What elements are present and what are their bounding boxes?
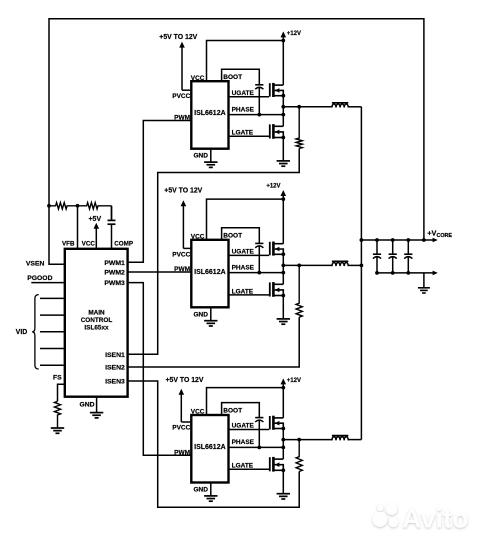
svg-text:UGATE: UGATE [232, 423, 255, 430]
resistor R_ISEN3 current sense [296, 440, 302, 472]
node boot cap to PHASE driver 1 [257, 113, 261, 117]
wire phase to inductor driver 3 [283, 439, 332, 441]
driver U2 ISL6612A box [191, 81, 228, 149]
wire LGATE driver 2 [229, 294, 270, 296]
svg-text:PWM2: PWM2 [104, 270, 125, 277]
wire PVCC driver 2 [183, 247, 191, 249]
node return cap 1 [375, 271, 379, 275]
ground output return [418, 287, 430, 289]
resistor R3 (FS) [54, 401, 60, 428]
svg-text:+5V TO 12V: +5V TO 12V [166, 377, 204, 384]
wire VSEN feedback rail from +VCORE (top rail) [49, 19, 424, 265]
svg-text:VCC: VCC [82, 240, 96, 247]
node high-side source driver 3 [281, 427, 285, 431]
svg-text:ISEN2: ISEN2 [105, 365, 125, 372]
wire low-side source to ground driver 2 [282, 296, 284, 319]
wire LGATE driver 3 [229, 468, 270, 470]
svg-text:VCC: VCC [191, 234, 205, 241]
svg-text:ISL6612A: ISL6612A [194, 444, 226, 451]
wire VCC driver 3 to +12V [207, 388, 284, 415]
svg-text:GND: GND [193, 487, 208, 494]
svg-text:PWM: PWM [174, 115, 190, 122]
wire inductor to bus driver 1 [348, 106, 362, 108]
svg-text:FS: FS [53, 375, 62, 382]
ground driver 1 [204, 161, 217, 163]
supply +5V arrow to VCC [94, 223, 100, 229]
svg-text:VCC: VCC [191, 409, 205, 416]
node low-side source driver 3 [281, 468, 285, 472]
svg-text:GND: GND [193, 311, 208, 318]
wire GND pin driver 3 [210, 483, 212, 496]
transistor Q4 low-side [269, 282, 271, 296]
svg-text:UGATE: UGATE [232, 248, 255, 255]
node PHASE pin junction driver 1 [281, 113, 285, 117]
wire output return rail with arrow [433, 271, 438, 276]
node VCORE feedback tap [422, 238, 426, 242]
wire phase vertical driver 2 [282, 254, 284, 284]
inductor L1 [332, 102, 348, 104]
wire GND pin driver 1 [210, 149, 212, 162]
svg-text:+12V: +12V [287, 378, 301, 384]
wire PVCC driver 3 [181, 421, 191, 423]
supply +12V driver 3 [281, 378, 287, 384]
svg-text:PVCC: PVCC [172, 93, 190, 100]
wire ISEN3 net [128, 381, 300, 507]
wire BOOT driver 1 [222, 69, 260, 85]
svg-text:VID: VID [16, 329, 28, 336]
wire PHASE pin driver 1 [229, 114, 284, 116]
wire +12V to high-side drain driver 2 [282, 199, 284, 244]
wire VFB to main control [77, 206, 79, 249]
wire VID bit 0 [40, 297, 65, 299]
svg-text:VFB: VFB [62, 240, 75, 247]
supply +5V TO 12V arrow (PVCC) driver 3 [179, 389, 185, 395]
svg-text:ISEN3: ISEN3 [105, 379, 125, 386]
brace VID bus [32, 295, 39, 369]
wire VID bit 3 [40, 348, 65, 350]
wire PGOOD [31, 282, 65, 284]
transistor Q6 low-side [269, 457, 271, 471]
svg-text:PHASE: PHASE [232, 106, 255, 113]
svg-text:BOOT: BOOT [223, 408, 242, 415]
ground FS resistor [51, 427, 64, 429]
node PHASE pin junction driver 3 [281, 446, 285, 450]
wire PWM3 net [128, 283, 192, 456]
resistor R_ISEN2 current sense [296, 265, 302, 317]
wire UGATE driver 3 [229, 429, 270, 431]
wire PVCC driver 1 [182, 89, 191, 91]
capacitor C2 output [376, 240, 378, 254]
wire BOOT driver 3 [222, 403, 260, 418]
capacitor C4 output [407, 240, 409, 254]
transistor Q3 high-side [269, 242, 271, 256]
watermark Avito logo [365, 496, 475, 538]
capacitor C3 output [392, 240, 394, 254]
node phase junction driver 1 [281, 105, 285, 109]
svg-text:VSEN: VSEN [26, 260, 45, 267]
svg-text:GND: GND [79, 402, 94, 409]
wire PWM2 net [128, 271, 192, 273]
wire R2 to COMP cap [111, 206, 113, 221]
node phase junction driver 3 [281, 438, 285, 442]
wire phase summing bus [360, 107, 362, 440]
svg-text:ISL6612A: ISL6612A [194, 110, 226, 117]
wire phase to inductor driver 2 [283, 264, 332, 266]
node VSEN/R1 junction [47, 204, 51, 208]
svg-text:+12V: +12V [287, 31, 301, 37]
capacitor C1 (COMP) [111, 206, 113, 221]
svg-text:BOOT: BOOT [223, 74, 242, 81]
wire GND pin driver 2 [210, 307, 212, 320]
driver U3 ISL6612A box [191, 240, 228, 307]
ground driver 2 [204, 320, 217, 322]
wire inductor to bus driver 2 [348, 264, 362, 266]
svg-text:PHASE: PHASE [232, 439, 255, 446]
wire phase vertical driver 1 [282, 96, 284, 127]
svg-text:PWM1: PWM1 [104, 260, 125, 267]
resistor R1 (VFB divider) [49, 203, 78, 209]
supply +12V driver 1 [281, 31, 287, 37]
wire low-side source to ground driver 3 [282, 470, 284, 493]
ground driver 3 [204, 495, 217, 497]
node bus/VCORE tap [360, 238, 364, 242]
wire phase to inductor driver 1 [283, 106, 332, 108]
svg-text:PWM3: PWM3 [104, 280, 125, 287]
node VCC/+12V junction driver 1 [281, 39, 285, 43]
wire return to ground [423, 273, 425, 288]
node VCC/+12V junction driver 3 [281, 386, 285, 390]
node return cap 2 [391, 271, 395, 275]
svg-text:PGOOD: PGOOD [27, 275, 52, 282]
inductor L2 [332, 260, 348, 262]
node boot cap to PHASE driver 3 [257, 446, 261, 450]
wire LGATE driver 1 [229, 135, 270, 137]
wire ISEN2 net [128, 317, 300, 367]
node return cap 3 [406, 271, 410, 275]
ground main control [90, 412, 103, 414]
node VCORE cap tap 2 [391, 238, 395, 242]
svg-text:VCC: VCC [191, 75, 205, 82]
wire BOOT driver 2 [222, 228, 260, 244]
resistor R_ISEN1 current sense [296, 107, 302, 149]
transistor Q5 high-side [269, 416, 271, 430]
wire VCC driver 1 to +12V [207, 41, 284, 82]
node sense tap driver 1 [297, 105, 301, 109]
svg-text:+12V: +12V [266, 184, 280, 190]
capacitor C_B2 bootstrap [258, 242, 260, 244]
wire UGATE driver 1 [229, 96, 270, 98]
wire +12V to high-side drain driver 3 [282, 388, 284, 418]
driver U4 ISL6612A box [191, 415, 228, 483]
supply +5V TO 12V arrow (PVCC) driver 2 [181, 200, 187, 206]
svg-text:ISL6612A: ISL6612A [194, 269, 226, 276]
svg-text:+VCORE: +VCORE [427, 229, 452, 239]
svg-text:COMP: COMP [114, 240, 133, 247]
node phase junction driver 2 [281, 264, 285, 268]
wire VID bit 4 [40, 364, 65, 366]
node sense tap driver 3 [297, 438, 301, 442]
wire PHASE pin driver 3 [229, 446, 284, 448]
capacitor C_B1 bootstrap [258, 84, 260, 86]
supply +5V TO 12V arrow (PVCC) driver 1 [179, 42, 185, 48]
svg-text:+5V TO 12V: +5V TO 12V [164, 188, 202, 195]
svg-text:PHASE: PHASE [232, 264, 255, 271]
svg-text:Avito: Avito [402, 504, 469, 534]
capacitor C_B3 bootstrap [258, 417, 260, 419]
wire UGATE driver 2 [229, 254, 270, 256]
wire VCC driver 2 to +12V [207, 199, 284, 240]
supply +12V driver 2 [281, 190, 287, 196]
node bus/phase2 [360, 264, 364, 268]
transistor Q1 high-side [269, 83, 271, 97]
wire VID bit 2 [40, 331, 65, 333]
node boot cap to PHASE driver 2 [257, 271, 261, 275]
node low-side source driver 1 [281, 136, 285, 140]
svg-text:PWM: PWM [174, 450, 190, 457]
node PHASE pin junction driver 2 [281, 271, 285, 275]
svg-text:+5V TO 12V: +5V TO 12V [159, 34, 197, 41]
wire PWM1 net [128, 121, 192, 263]
svg-text:+5V: +5V [88, 216, 101, 223]
wire PHASE pin driver 2 [229, 272, 284, 274]
wire ISEN1 net [128, 149, 300, 355]
node VFB junction [76, 204, 80, 208]
node VCORE cap tap 1 [375, 238, 379, 242]
node high-side source driver 1 [281, 94, 285, 98]
svg-text:ISL65xx: ISL65xx [84, 325, 109, 332]
svg-text:GND: GND [193, 153, 208, 160]
node high-side source driver 2 [281, 252, 285, 256]
node VCC/+12V junction driver 2 [281, 197, 285, 201]
wire +12V to high-side drain driver 1 [282, 41, 284, 86]
svg-text:CONTROL: CONTROL [81, 317, 113, 324]
node VCORE cap tap 3 [406, 238, 410, 242]
wire +VCORE rail with arrow [433, 238, 438, 243]
inductor L3 [332, 435, 348, 437]
ground low-side driver 3 [277, 493, 290, 495]
resistor R2 (feedback) [78, 203, 112, 209]
ground low-side driver 2 [277, 318, 290, 320]
wire FS [58, 384, 65, 401]
svg-text:BOOT: BOOT [223, 233, 242, 240]
wire low-side source to ground driver 1 [282, 138, 284, 161]
svg-text:UGATE: UGATE [232, 90, 255, 97]
svg-text:MAIN: MAIN [88, 309, 105, 316]
wire phase vertical driver 3 [282, 429, 284, 460]
main control IC U1 ISL65xx box [65, 249, 128, 397]
node sense tap driver 2 [297, 264, 301, 268]
wire VID bit 1 [40, 314, 65, 316]
node low-side source driver 2 [281, 294, 285, 298]
svg-text:PWM: PWM [174, 266, 190, 273]
svg-text:ISEN1: ISEN1 [105, 352, 125, 359]
transistor Q2 low-side [269, 124, 271, 138]
wire inductor to bus driver 3 [348, 439, 362, 441]
ground low-side driver 1 [277, 160, 290, 162]
svg-text:PVCC: PVCC [172, 251, 190, 258]
wire GND pin main [96, 397, 98, 413]
svg-text:PVCC: PVCC [172, 424, 190, 431]
